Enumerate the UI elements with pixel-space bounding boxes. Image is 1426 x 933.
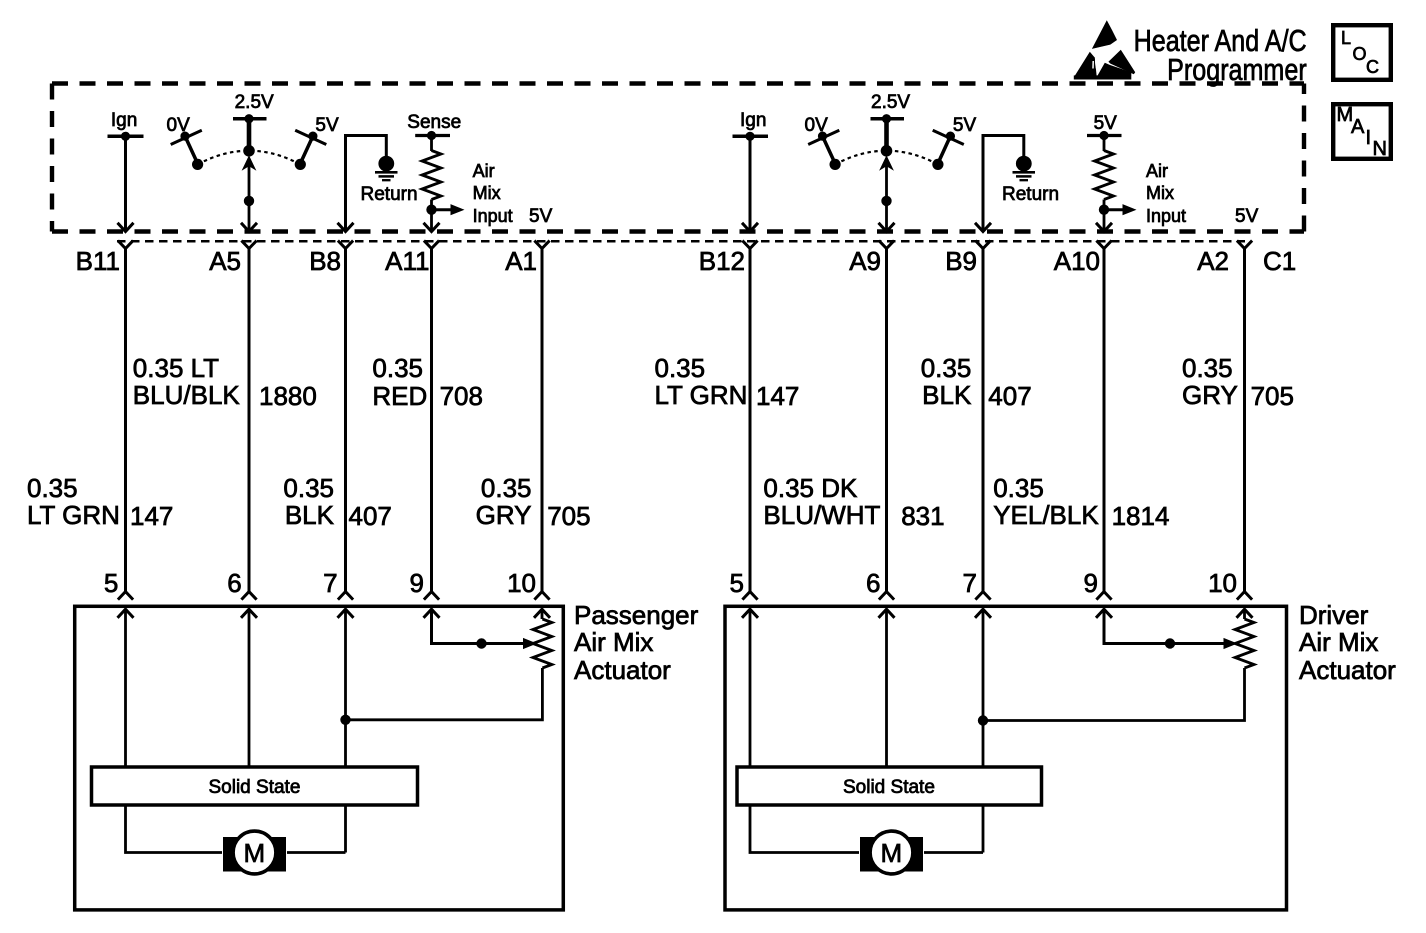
wire label 0.35 BLK (B9)	[921, 355, 972, 410]
wire label 0.35 GRY (A1)	[476, 475, 532, 529]
circuit number 147 (B12)	[756, 383, 799, 409]
actuator pin number 7 at x345.5	[323, 570, 337, 596]
air mix pot resistor (passenger)	[533, 619, 552, 668]
arrow into driver actuator at x983	[975, 609, 991, 618]
wire Ign to B11	[124, 136, 127, 229]
pot end arm 5V (left)	[300, 136, 313, 163]
programmer box dashed border right	[1302, 84, 1306, 232]
pin label B11	[76, 248, 120, 274]
wire pin7 to solid state (driver)	[982, 609, 985, 767]
wire junction to A10 pin	[1103, 210, 1106, 230]
ground bar 1 (right Return)	[1013, 171, 1036, 174]
arrow into driver actuator at x886.5	[879, 609, 895, 618]
junction 2.5V (right)	[882, 114, 891, 123]
arrow into A5 pin	[241, 223, 257, 232]
LOC letter C	[1366, 58, 1379, 76]
connector pin B11	[118, 241, 133, 249]
arrow into A10 pin	[1096, 223, 1112, 232]
wire pin5 to solid state (passenger)	[124, 609, 127, 767]
wire pin5 to solid state (driver)	[749, 609, 752, 767]
Return terminal circle (left)	[378, 156, 394, 172]
air mix input arrow (right)	[1123, 204, 1137, 215]
ground bar 2 (right Return)	[1016, 175, 1032, 178]
wire B9 riser to Return (right)	[983, 136, 1024, 230]
switch contact 0V (left)	[180, 132, 189, 141]
label Ign (right)	[740, 111, 766, 130]
connector pin A11	[424, 241, 439, 249]
pin label A11	[385, 248, 429, 274]
Ign terminal bar (right)	[733, 135, 769, 139]
wire A9 to actuator	[885, 249, 888, 592]
junction on wiper wire (passenger)	[476, 638, 486, 648]
pin label A5	[209, 248, 241, 274]
wire motor right to pin7 net (driver)	[924, 851, 983, 854]
actuator pin number 9 at x431.5	[410, 570, 424, 596]
circuit number 1814 (A10)	[1112, 503, 1170, 529]
resistor lower stub (left)	[430, 200, 433, 207]
wire junction to A11 pin	[430, 210, 433, 230]
actuator connector under C1	[1237, 592, 1252, 600]
actuator pin number 9 at x1104	[1084, 570, 1098, 596]
ground bar 2 (left Return)	[379, 175, 395, 178]
wire motor right to pin7 net (passenger)	[287, 851, 346, 854]
arrow into A11 pin	[424, 223, 440, 232]
motor letter M (driver)	[881, 840, 903, 866]
arrow into driver actuator at x750	[742, 609, 758, 618]
actuator pin number 7 at x983	[963, 570, 977, 596]
wire pin10 upper (driver)	[1243, 609, 1246, 619]
potentiometer travel dashed arc (left)	[198, 151, 301, 165]
wire label 0.35 DK BLU/WHT (A9)	[763, 475, 880, 529]
actuator pin number 6 at x249	[227, 570, 241, 596]
junction Sense (left)	[427, 131, 436, 140]
Return terminal circle (right)	[1016, 156, 1032, 172]
connector pin B9	[975, 241, 990, 249]
wire Ign to B12	[749, 136, 752, 229]
arrow into B12 pin	[742, 223, 758, 232]
label 0V (right)	[805, 116, 828, 135]
label Solid State (driver)	[843, 778, 935, 797]
junction Ign/B11 (left)	[121, 132, 130, 141]
switch blade 5V (left)	[295, 130, 326, 144]
junction on A9 wiper wire	[881, 196, 891, 206]
wire pot bottom to pin7 net (driver)	[983, 668, 1245, 721]
arrow into passenger actuator at x542	[534, 609, 550, 618]
wire C1 to actuator	[1243, 249, 1246, 592]
pot end terminal 0V (right)	[830, 159, 841, 170]
wire B12 to actuator	[749, 249, 752, 592]
ground bar 1 (left Return)	[375, 171, 398, 174]
MAIN letter A	[1351, 117, 1364, 137]
wire B8 riser to Return (left)	[346, 136, 387, 230]
wire pin10 upper (passenger)	[541, 609, 544, 619]
actuator pin number 5 at x750	[730, 570, 744, 596]
potentiometer travel dashed arc (right)	[835, 151, 938, 165]
arrow into passenger actuator at x249	[241, 609, 257, 618]
connector pin A1	[534, 241, 549, 249]
junction on A5 wiper wire	[244, 196, 254, 206]
switch blade 0V (left)	[171, 130, 202, 144]
wiper junction (right)	[881, 145, 893, 157]
junction 5V/A10	[1099, 131, 1108, 140]
circuit number 147 (B11)	[130, 503, 173, 529]
connector pin A10	[1096, 241, 1111, 249]
wire pin6 to solid state (passenger)	[248, 609, 251, 767]
wire pot bottom to pin7 net (passenger)	[346, 668, 543, 720]
junction resistor/A11 (left)	[426, 205, 436, 215]
pin label B12	[699, 248, 745, 274]
switch blade 5V (right)	[933, 130, 964, 144]
resistor upper stub (left)	[430, 136, 433, 152]
pin label B8	[309, 248, 341, 274]
wire label 0.35 LT GRN (B11)	[27, 475, 120, 529]
Passenger Air Mix Actuator box	[75, 606, 564, 910]
pot end arm 0V (left)	[185, 136, 198, 163]
wire label 0.35 YEL/BLK (A10)	[993, 475, 1099, 529]
wire solid state to motor left (driver)	[750, 805, 859, 853]
label 2.5V (left)	[235, 93, 274, 112]
circuit number 407 (B8)	[349, 503, 392, 529]
actuator connector under A9	[879, 592, 894, 600]
wire pin7 to solid state (passenger)	[344, 609, 347, 767]
potentiometer wiper arrow (left)	[242, 155, 257, 171]
air mix pot resistor (driver)	[1235, 619, 1254, 668]
arrow into passenger actuator at x125.5	[118, 609, 134, 618]
label 2.5V (right)	[871, 93, 910, 112]
wire B8 to actuator	[344, 249, 347, 592]
circuit number 831 (A9)	[901, 503, 944, 529]
LOC letter L	[1341, 29, 1351, 47]
junction on wiper wire (driver)	[1165, 638, 1175, 648]
actuator pin number 5 at x125.5	[104, 570, 118, 596]
label 5V pot end (right)	[953, 116, 976, 135]
wiper stem 2.5V (right)	[884, 119, 889, 151]
actuator pin number 10 at x542	[507, 570, 536, 596]
MAIN letter M	[1337, 105, 1354, 125]
MAIN reference box	[1333, 104, 1391, 159]
arrow into passenger actuator at x431.5	[424, 609, 440, 618]
pin label A10	[1054, 248, 1100, 274]
wire pin7 net below solid state (passenger)	[344, 805, 347, 853]
wire pin9 wiper jog (driver)	[1104, 609, 1224, 643]
connector C1/C2 dashed line	[117, 240, 1245, 243]
pot end arm 0V (right)	[823, 136, 836, 163]
motor M (passenger)	[223, 831, 286, 874]
arrow into driver actuator at x1104	[1096, 609, 1112, 618]
actuator connector under B12	[742, 592, 757, 600]
wire A5 to actuator	[248, 249, 251, 592]
programmer box dashed border top	[52, 81, 1304, 85]
circuit number 708 (A11)	[440, 383, 483, 409]
Solid State box (passenger)	[92, 767, 418, 805]
label Return (left)	[361, 185, 418, 204]
label 5V at A1	[529, 207, 552, 226]
arrow into A9 pin	[879, 223, 895, 232]
junction Ign/B12	[745, 132, 754, 141]
wire A1 to actuator	[541, 249, 544, 592]
label Air Mix Input (right)	[1146, 160, 1186, 228]
wire B11 to actuator	[124, 249, 127, 592]
wiper stem 2.5V (left)	[247, 119, 252, 151]
LOC letter O	[1353, 45, 1367, 63]
wire A10 to actuator	[1103, 249, 1106, 592]
air mix input arrow (left)	[451, 204, 465, 215]
wire to air mix input arrow (left)	[432, 208, 452, 211]
actuator pin number 10 at x1244.5	[1208, 570, 1237, 596]
pot wiper arrow (driver)	[1224, 638, 1238, 649]
arrow into B9 pin	[975, 223, 991, 232]
actuator connector under A11	[424, 592, 439, 600]
arrow into B8 pin	[338, 223, 354, 232]
LOC reference box	[1333, 25, 1391, 80]
programmer box dashed border bottom	[52, 229, 1304, 233]
pin label A1	[505, 248, 537, 274]
resistor upper stub (right)	[1103, 136, 1106, 152]
Driver Air Mix Actuator box	[725, 606, 1287, 910]
MAIN letter I	[1366, 128, 1372, 148]
connector pin A5	[241, 241, 256, 249]
resistor lower stub (right)	[1103, 200, 1106, 207]
wire pin7 net below solid state (driver)	[982, 805, 985, 853]
motor M (driver)	[860, 831, 923, 874]
wire label 0.35 LT BLU/BLK (A5)	[133, 355, 240, 410]
label Solid State (passenger)	[209, 778, 301, 797]
pot end arm 5V (right)	[938, 136, 951, 163]
actuator connector under B9	[975, 592, 990, 600]
arrow into driver actuator at x1244.5	[1237, 609, 1253, 618]
pin label A9	[849, 248, 881, 274]
actuator connector under A10	[1096, 592, 1111, 600]
wire wiper to A5	[248, 166, 251, 230]
label Ign (left)	[111, 111, 137, 130]
connector pin C1	[1237, 241, 1252, 249]
wire A11 to actuator	[430, 249, 433, 592]
2.5V terminal bar (right)	[871, 117, 905, 121]
wire label 0.35 RED (A11)	[372, 355, 427, 411]
pot wiper arrow (passenger)	[523, 638, 537, 649]
switch contact 5V (left)	[308, 132, 317, 141]
switch blade 0V (right)	[808, 130, 839, 144]
switch contact 0V (right)	[818, 132, 827, 141]
wire B9 to actuator	[982, 249, 985, 592]
label 5V above A10 resistor	[1094, 114, 1117, 133]
pot end terminal 5V (right)	[932, 159, 943, 170]
circuit number 705 (A1)	[547, 503, 590, 529]
ground bar 3 (left Return)	[382, 179, 391, 181]
wire to air mix input arrow (right)	[1104, 208, 1123, 211]
2.5V terminal bar (left)	[233, 117, 267, 121]
switch contact 5V (right)	[946, 132, 955, 141]
motor letter M (passenger)	[244, 840, 266, 866]
label Driver Air Mix Actuator	[1299, 602, 1396, 685]
MAIN letter N	[1373, 139, 1387, 159]
junction pot/pin7 wire (passenger)	[340, 715, 350, 725]
arrow into passenger actuator at x345.5	[338, 609, 354, 618]
pin label A2	[1197, 248, 1229, 274]
junction pot/pin7 wire (driver)	[978, 715, 988, 725]
actuator connector under B11	[118, 592, 133, 600]
ESD sensitive device symbol	[1074, 20, 1135, 79]
wire pin6 to solid state (driver)	[885, 609, 888, 767]
wiper junction (left)	[243, 145, 255, 157]
programmer box dashed border left	[50, 84, 54, 232]
circuit number 1880 (A5)	[259, 383, 317, 409]
arrow into B11 pin	[118, 223, 134, 232]
actuator pin number 6 at x886.5	[866, 570, 880, 596]
connector pin A9	[879, 241, 894, 249]
wire label 0.35 GRY (C1)	[1182, 355, 1238, 410]
actuator connector under A5	[241, 592, 256, 600]
label 0V (left)	[167, 116, 190, 135]
pin label C1	[1263, 248, 1296, 274]
circuit number 705 (C1)	[1251, 383, 1294, 409]
actuator connector under B8	[338, 592, 353, 600]
wire pin9 wiper jog (passenger)	[432, 609, 524, 643]
pot end terminal 0V (left)	[192, 159, 203, 170]
label 5V pot end (left)	[315, 116, 338, 135]
connector pin B8	[338, 241, 353, 249]
Sense terminal bar (left)	[415, 134, 450, 137]
title Heater And A/C Programmer	[1134, 27, 1307, 84]
Solid State box (driver)	[737, 767, 1042, 805]
junction 2.5V (left)	[244, 114, 253, 123]
label Passenger Air Mix Actuator	[574, 602, 698, 685]
wire label 0.35 LT GRN (B12)	[655, 355, 748, 410]
wire wiper to A9	[885, 166, 888, 230]
5V terminal bar (right)	[1087, 134, 1122, 137]
air mix sense resistor (left)	[422, 151, 441, 200]
label Air Mix Input (left)	[473, 160, 513, 228]
label 5V at C1	[1235, 207, 1258, 226]
junction resistor/A10	[1099, 205, 1109, 215]
pot end terminal 5V (left)	[295, 159, 306, 170]
wire solid state to motor left (passenger)	[126, 805, 223, 853]
actuator connector under A1	[534, 592, 549, 600]
connector pin B12	[742, 241, 757, 249]
potentiometer wiper arrow (right)	[879, 155, 894, 171]
wire label 0.35 BLK (B8)	[283, 475, 334, 529]
pin label B9	[945, 248, 977, 274]
Ign terminal bar (left)	[108, 135, 144, 139]
air mix sense resistor (right)	[1095, 151, 1114, 200]
label Return (right)	[1002, 185, 1059, 204]
label Sense (left)	[407, 113, 461, 132]
circuit number 407 (B9)	[988, 383, 1031, 409]
ground bar 3 (right Return)	[1020, 179, 1029, 181]
